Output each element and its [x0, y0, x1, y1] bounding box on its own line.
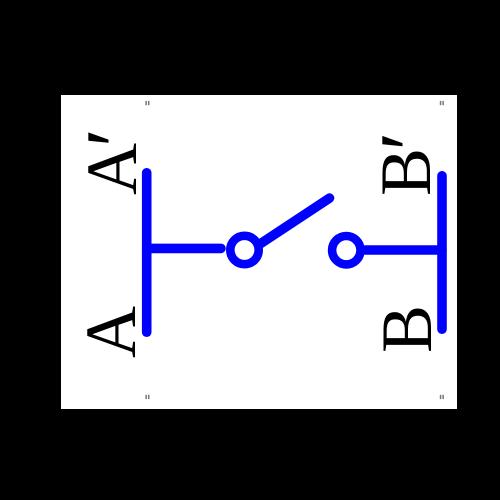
contact circle left	[230, 236, 258, 264]
svg-text:B′: B′	[362, 132, 458, 196]
svg-text:A′: A′	[68, 128, 164, 195]
svg-text:B: B	[367, 305, 447, 353]
wire left (bar A to left contact)	[147, 244, 221, 254]
tick marks top-left	[145, 101, 149, 105]
contact circle right	[332, 236, 360, 264]
axes area	[61, 95, 457, 409]
terminal bar A (left vertical)	[142, 173, 152, 332]
wire right (right contact to bar B)	[365, 245, 442, 255]
tick marks bottom-right	[440, 395, 444, 399]
svg-text:A: A	[71, 306, 151, 358]
tick marks top-right	[440, 101, 444, 105]
tick marks bottom-left	[145, 395, 149, 399]
switch lever	[260, 198, 330, 244]
terminal bar B (right vertical)	[437, 176, 447, 329]
